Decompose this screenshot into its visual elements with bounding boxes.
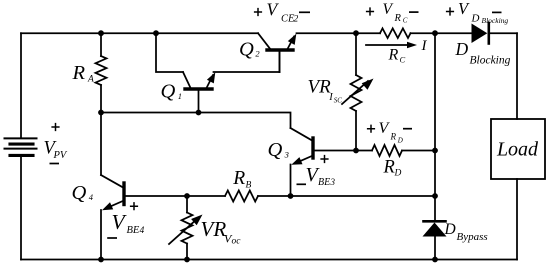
resistor RD <box>372 145 402 156</box>
wire top rail right of RC <box>411 32 472 34</box>
node Q1 base <box>196 110 202 116</box>
transistor Q2 bar <box>267 48 293 51</box>
battery V_PV plate long 1 <box>5 137 37 139</box>
wire top rail right of D_Blocking <box>490 32 518 34</box>
label battery +, V_PV, - <box>44 123 68 164</box>
label Q3 <box>268 139 289 161</box>
transistor Q1 bar <box>185 87 212 90</box>
node VR_Voc bottom on bottom rail <box>184 257 190 263</box>
diode D_Blocking triangle <box>472 24 488 44</box>
wire top rail left segment <box>21 32 258 34</box>
svg-text:V: V <box>267 0 280 20</box>
svg-text:D: D <box>471 13 480 25</box>
svg-text:V: V <box>458 0 470 18</box>
svg-text:PV: PV <box>53 150 68 161</box>
label R_D <box>383 158 402 179</box>
svg-text:D: D <box>397 136 403 144</box>
svg-text:1: 1 <box>178 91 182 101</box>
svg-text:R: R <box>72 62 86 84</box>
variable resistor VR_Voc zigzag <box>182 213 193 244</box>
wire RB right to Q3 emitter node to bypass column <box>258 195 435 197</box>
wire Q4 emitter down to bottom rail <box>100 210 102 260</box>
svg-text:VR: VR <box>308 77 332 98</box>
svg-text:I: I <box>421 38 428 54</box>
battery V_PV plate short 2 <box>10 154 33 157</box>
wire right column x=435 mid <box>434 151 436 222</box>
svg-text:R: R <box>390 132 397 142</box>
label VR_Voc <box>201 217 242 247</box>
node VR_Voc top on base wire <box>184 193 190 199</box>
label R_B <box>232 168 251 191</box>
svg-text:oc: oc <box>232 237 242 247</box>
wire top rail middle segment <box>297 32 381 34</box>
current arrow I line <box>366 44 409 46</box>
VR_Isc arrowhead <box>362 79 374 90</box>
wire Q4 base to RB <box>124 195 225 197</box>
node VR_Isc bottom / Q3 base <box>353 148 359 154</box>
svg-text:3: 3 <box>284 149 289 159</box>
transistor Q2 emitter arrowhead <box>288 34 297 45</box>
label R_C (below arrow) <box>388 47 406 65</box>
diode D_Bypass triangle <box>423 223 447 237</box>
node Q1 collector on positive rail <box>153 30 159 36</box>
transistor Q2 base lead <box>279 50 281 72</box>
wire Load bottom to bottom rail <box>516 179 518 260</box>
wire right rail to Load top <box>516 33 518 119</box>
transistor Q2 collector slant <box>258 33 271 50</box>
label +V_RD- <box>367 120 412 144</box>
wire RA bottom lead <box>100 85 102 113</box>
wire Q1 collector from top rail <box>156 33 183 72</box>
transistor Q1 base lead <box>198 89 200 113</box>
svg-text:Blocking: Blocking <box>482 16 509 25</box>
wire right column x=435 below bypass <box>434 237 436 260</box>
svg-text:BE: BE <box>318 177 330 188</box>
svg-text:3: 3 <box>330 177 336 187</box>
svg-text:R: R <box>232 168 245 189</box>
resistor RB <box>225 191 258 202</box>
svg-text:R: R <box>394 13 402 24</box>
label D_Bypass <box>444 221 488 243</box>
node RC right / D_Blocking anode <box>432 30 438 36</box>
transistor Q2 emitter slant <box>288 37 295 50</box>
variable resistor VR_Isc arrow line <box>342 81 368 104</box>
node Q3 emitter on base wire <box>288 193 294 199</box>
wire bottom rail <box>21 259 517 261</box>
transistor Q1 emitter slant <box>207 75 214 88</box>
svg-text:Q: Q <box>72 182 87 204</box>
svg-text:V: V <box>379 120 391 137</box>
label Q4 <box>72 182 94 204</box>
label D_Blocking <box>455 39 511 67</box>
wire Q3 base to node and RD left lead <box>313 150 372 152</box>
transistor Q3 emitter arrowhead <box>291 157 302 165</box>
wire RD right lead to right column <box>402 150 435 152</box>
svg-text:A: A <box>87 75 94 85</box>
svg-text:R: R <box>383 158 395 178</box>
svg-text:D: D <box>455 39 469 59</box>
svg-text:4: 4 <box>89 192 94 202</box>
svg-text:Load: Load <box>496 139 539 161</box>
label R_A <box>72 62 95 85</box>
svg-text:Q: Q <box>268 139 283 161</box>
label Q1 <box>161 81 183 103</box>
transistor Q4 collector slant <box>101 175 124 188</box>
transistor Q4 emitter arrowhead <box>102 202 113 210</box>
label VR_Isc <box>308 77 343 105</box>
resistor RC <box>380 28 411 38</box>
svg-text:VR: VR <box>201 217 227 241</box>
transistor Q3 bar <box>311 138 314 158</box>
battery V_PV plate short 1 <box>10 143 33 146</box>
svg-text:D: D <box>444 221 456 238</box>
diode D_Bypass cathode bar <box>424 220 446 223</box>
node VR_Isc top on positive rail <box>353 30 359 36</box>
label +V_RC- (top) <box>366 1 419 24</box>
wire Q3 emitter down to RB wire <box>290 165 292 197</box>
transistor Q1 collector slant <box>183 72 191 89</box>
svg-text:V: V <box>112 210 128 234</box>
svg-text:V: V <box>383 1 394 18</box>
svg-text:Q: Q <box>161 81 176 103</box>
wire node RA-bottom to Q1 base to Q3 collector <box>101 113 291 129</box>
svg-text:Q: Q <box>239 39 254 61</box>
wire VR_Voc top lead <box>186 196 188 213</box>
node D_Bypass top <box>432 193 438 199</box>
wire RA top lead <box>100 33 102 56</box>
transistor Q1 emitter arrowhead <box>207 72 215 83</box>
transistor Q4 emitter slant <box>106 201 125 209</box>
svg-text:SC: SC <box>334 97 343 105</box>
svg-text:C: C <box>400 55 406 65</box>
svg-text:Blocking: Blocking <box>470 55 511 67</box>
battery V_PV plate long 2 <box>5 148 37 150</box>
svg-text:Bypass: Bypass <box>457 231 488 243</box>
variable resistor VR_Voc arrow line <box>169 219 197 244</box>
svg-text:2: 2 <box>294 15 299 25</box>
svg-text:BE: BE <box>127 225 140 236</box>
current arrow I head <box>407 42 417 48</box>
svg-text:D: D <box>394 169 402 179</box>
svg-text:2: 2 <box>255 49 260 59</box>
wire VR_Isc top lead <box>355 33 357 75</box>
wire Q1 emitter to Q2 base <box>214 71 280 73</box>
wire right column x=435 top <box>434 33 436 150</box>
svg-text:C: C <box>403 16 408 24</box>
svg-text:B: B <box>246 181 252 191</box>
wire VR_Voc bottom lead <box>186 244 188 260</box>
svg-text:4: 4 <box>140 226 145 236</box>
svg-text:R: R <box>388 47 399 64</box>
node D_Bypass bottom on bottom rail <box>432 257 438 263</box>
label +, V_BE3, - <box>297 155 336 188</box>
wire Q2 base lead <box>279 50 281 72</box>
label Q2 <box>239 39 260 61</box>
label +V_DBlocking- <box>446 0 509 25</box>
transistor Q3 collector slant <box>291 128 314 141</box>
diode D_Blocking cathode bar <box>487 23 490 44</box>
variable resistor VR_Isc zigzag <box>351 75 362 111</box>
wire left column down to Q4 collector <box>100 113 102 176</box>
VR_Voc arrowhead <box>191 215 202 226</box>
node RA top on positive rail <box>98 30 104 36</box>
resistor RA <box>96 56 107 85</box>
node RA bottom / Q4 collector <box>98 110 104 116</box>
wire left rail below battery <box>20 156 22 260</box>
wire left rail above battery <box>20 33 22 138</box>
transistor Q4 bar <box>122 183 125 205</box>
transistor Q3 emitter slant <box>295 156 313 164</box>
node RD right <box>432 148 438 154</box>
wire VR_Isc bottom lead <box>355 111 357 151</box>
Load box <box>491 119 545 179</box>
svg-text:I: I <box>328 92 333 103</box>
label +, V_BE4, - <box>107 202 144 238</box>
label +V_CE2- <box>254 0 310 25</box>
node Q4 emitter on bottom rail <box>98 257 104 263</box>
